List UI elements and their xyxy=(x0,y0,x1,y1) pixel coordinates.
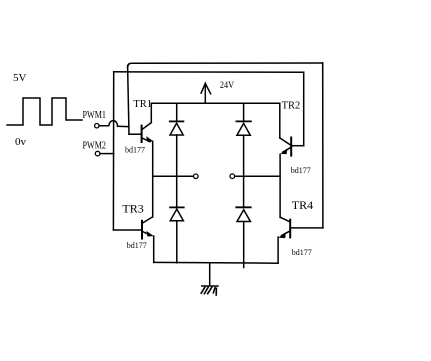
PWM1 terminal circle xyxy=(95,124,99,128)
top rail wire xyxy=(151,102,279,104)
svg-text:PWM2: PWM2 xyxy=(83,141,107,152)
svg-text:5V: 5V xyxy=(13,72,27,84)
wire PWM2 to left net vertical xyxy=(100,153,114,155)
24V label xyxy=(220,81,234,91)
diode D2 upper right xyxy=(236,103,251,207)
wire right output node horizontal xyxy=(235,175,280,177)
wire PWM1 net left vertical down to TR1 base xyxy=(128,66,129,134)
transistor TR3 xyxy=(113,217,153,262)
wire PWM1 net right vertical down to TR4 base xyxy=(322,63,324,228)
bd177 label TR3 xyxy=(127,241,147,250)
svg-text:TR3: TR3 xyxy=(122,201,143,215)
bd177 label TR4 xyxy=(292,248,312,257)
svg-text:0v: 0v xyxy=(15,136,27,148)
svg-text:TR4: TR4 xyxy=(292,198,313,212)
svg-text:bd177: bd177 xyxy=(127,241,147,250)
wire left output node horizontal xyxy=(153,175,193,177)
TR3 label xyxy=(122,201,143,215)
wire PWM2 net horizontal xyxy=(114,71,304,73)
wire PWM2 net left vertical down to TR3 base xyxy=(112,72,114,230)
transistor TR2 xyxy=(280,103,304,155)
svg-text:bd177: bd177 xyxy=(292,248,312,257)
square wave signal xyxy=(7,98,82,125)
motor terminal left circle xyxy=(194,174,199,179)
TR4 label xyxy=(292,198,313,212)
TR2 label xyxy=(282,101,301,112)
wire TR1 emitter to TR3 collector xyxy=(152,141,154,217)
motor terminal right circle xyxy=(230,174,235,179)
diode D1 upper left xyxy=(170,103,184,207)
diode D4 lower right xyxy=(236,207,250,267)
svg-text:bd177: bd177 xyxy=(125,145,145,154)
PWM2 label xyxy=(83,141,107,152)
bd177 label TR2 xyxy=(291,166,311,175)
wire ground lead xyxy=(209,263,211,286)
svg-text:PWM1: PWM1 xyxy=(83,110,107,121)
transistor TR1 xyxy=(129,103,154,142)
svg-text:bd177: bd177 xyxy=(291,166,311,175)
PWM2 terminal circle xyxy=(95,151,100,156)
24V supply arrow xyxy=(201,83,211,103)
5V label xyxy=(13,72,27,84)
transistor TR4 xyxy=(278,217,323,263)
wire TR2 emitter to TR4 collector xyxy=(279,154,281,217)
wire PWM1 net top horizontal xyxy=(128,63,323,67)
bd177 label TR1 xyxy=(125,145,145,154)
TR1 label xyxy=(133,99,152,110)
wire PWM2 net right vertical down to TR2 base xyxy=(303,72,305,146)
svg-text:24V: 24V xyxy=(220,81,234,91)
PWM1 label xyxy=(83,110,107,121)
0v label xyxy=(15,136,27,148)
wire PWM1 to TR1 base with hop over PWM2 line xyxy=(100,121,129,127)
ground symbol xyxy=(201,286,218,295)
svg-text:TR2: TR2 xyxy=(282,101,301,112)
svg-text:TR1: TR1 xyxy=(133,99,152,110)
diode D3 lower left xyxy=(170,207,184,262)
bottom rail wire xyxy=(154,261,278,264)
